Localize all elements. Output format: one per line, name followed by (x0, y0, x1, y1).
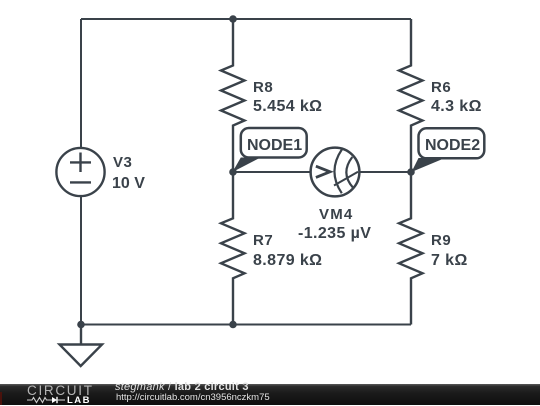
node name NODE2 (425, 137, 480, 155)
value -1.235 uV (298, 225, 371, 243)
value 7 kOhm (431, 252, 468, 270)
resistor R6 (399, 19, 423, 172)
label R7 (253, 232, 273, 249)
logo LAB (67, 395, 91, 406)
wire left vertical (V3 top lead) (80, 19, 82, 147)
node label NODE1 callout (233, 128, 307, 172)
ground (60, 325, 103, 367)
logo CIRCUIT (27, 383, 94, 398)
wire V3 bottom lead (80, 197, 82, 325)
voltmeter VM4 (311, 148, 360, 197)
voltage source V3 (56, 148, 104, 196)
value 10 V (112, 175, 145, 193)
label VM4 (319, 206, 353, 223)
value 5.454 kOhm (253, 98, 322, 116)
watermark red sliver (0, 392, 2, 405)
node label NODE2 callout (412, 128, 485, 172)
node junction top (233,19) (229, 15, 237, 23)
value 4.3 kOhm (431, 98, 482, 116)
resistor R7 (221, 172, 245, 325)
resistor R9 (399, 172, 423, 325)
node junction NODE2 (411,172) (407, 168, 415, 176)
wire top horizontal (81, 18, 411, 20)
label V3 (113, 154, 132, 171)
label R9 (431, 232, 451, 249)
label R6 (431, 79, 451, 96)
node junction NODE1 (233,172) (229, 168, 237, 176)
node junction bottom (233,324.5) (229, 321, 237, 329)
node junction ground tap (81,324.5) (77, 321, 85, 329)
wire bottom horizontal (81, 324, 411, 326)
credit line 2 (116, 392, 270, 403)
value 8.879 kOhm (253, 252, 322, 270)
logo resistor-diode icon (27, 395, 67, 405)
label R8 (253, 79, 273, 96)
credit line 1 (115, 381, 249, 393)
node name NODE1 (247, 137, 302, 155)
footer bar (0, 384, 540, 405)
resistor R8 (221, 19, 245, 172)
wire voltmeter to NODE2 (360, 171, 411, 173)
wire NODE1 to voltmeter (233, 171, 310, 173)
